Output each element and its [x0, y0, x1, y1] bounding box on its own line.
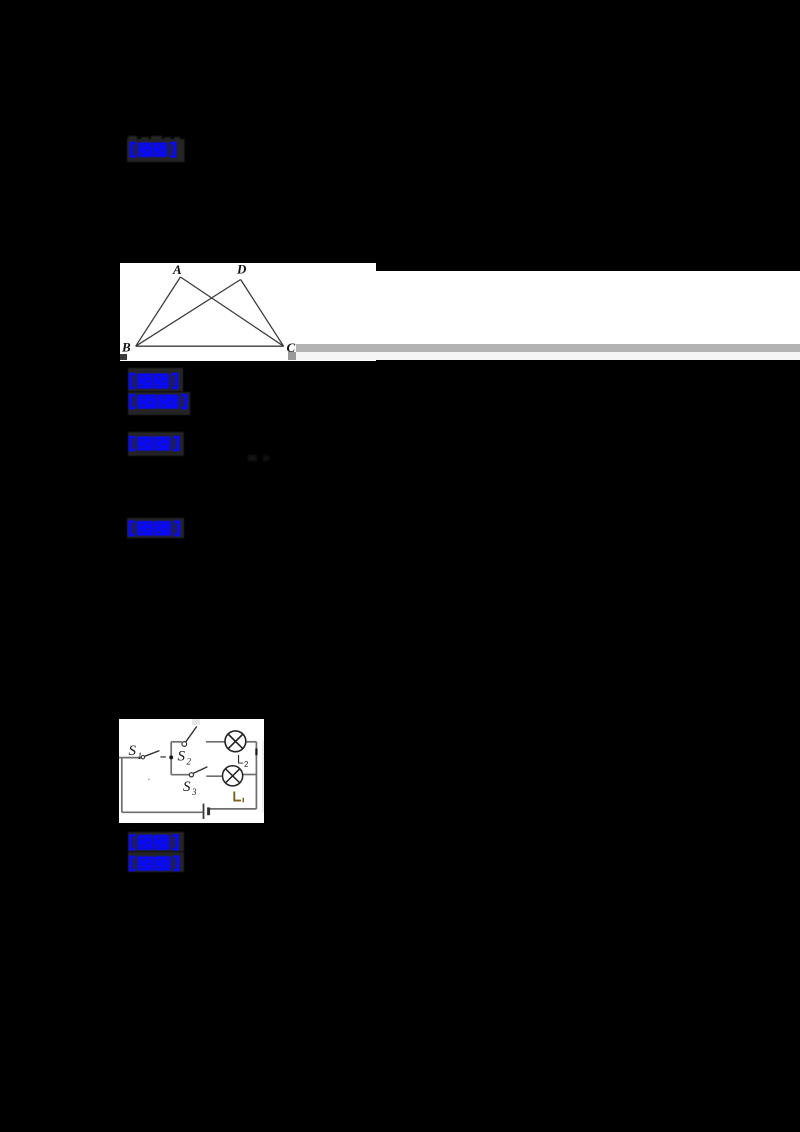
dark square under B — [120, 354, 127, 360]
switch S3 — [189, 773, 193, 777]
battery short plate — [207, 807, 210, 815]
label jieda — [128, 432, 184, 456]
right rail — [255, 742, 257, 809]
side AB — [136, 277, 181, 346]
wire S3 to lamp L1 — [206, 775, 222, 777]
wire junction to S3 branch — [171, 774, 189, 776]
label fenxi-2 — [128, 852, 184, 872]
faint remnants below jieda label — [248, 455, 257, 461]
wire L1 to right rail — [242, 774, 256, 776]
svg-text:D: D — [236, 263, 247, 277]
bottom wire left — [121, 811, 202, 813]
side DC — [241, 280, 284, 347]
triangle figure — [120, 263, 376, 360]
svg-text:A: A — [172, 263, 182, 277]
switch S2 — [182, 742, 187, 747]
gray notch top — [192, 719, 200, 725]
left rail — [120, 758, 122, 813]
bottom wire right — [209, 808, 256, 810]
wire junction to S2 branch — [171, 741, 182, 743]
off-white strip under gray bar — [296, 352, 800, 361]
side AC — [180, 277, 283, 346]
svg-text:B: B — [121, 340, 131, 355]
circuit figure — [119, 719, 265, 823]
faint edge line — [262, 741, 264, 813]
label fenxi-1 — [128, 392, 191, 416]
branch vertical — [170, 742, 172, 775]
switch S1 — [141, 756, 144, 759]
triangle image white block — [120, 263, 376, 361]
speck — [148, 779, 150, 781]
gray bar — [296, 344, 800, 352]
lamp L1 — [222, 766, 242, 786]
junction node — [169, 755, 173, 759]
wire dash before junction — [160, 756, 166, 758]
label L1 (olive) — [119, 719, 265, 823]
label dianping-top — [127, 139, 185, 162]
circuit image white block — [119, 719, 264, 823]
svg-text:C: C — [287, 340, 296, 355]
label kaodian-1 — [128, 368, 183, 391]
side BC — [136, 345, 284, 347]
lamp L2 — [225, 731, 246, 752]
label kaodian-2 — [128, 832, 184, 852]
rail dark tick — [255, 749, 257, 756]
wire S2 to lamp L2 — [206, 741, 225, 743]
battery long plate — [202, 804, 204, 819]
wire L2 to right rail — [245, 741, 256, 743]
wire S1 left — [119, 757, 141, 759]
side DB — [136, 280, 241, 347]
faint glyph remnants above top label — [128, 136, 137, 142]
label dianping-2 — [127, 518, 184, 538]
gray square under C — [288, 352, 296, 360]
right white band — [376, 271, 800, 360]
